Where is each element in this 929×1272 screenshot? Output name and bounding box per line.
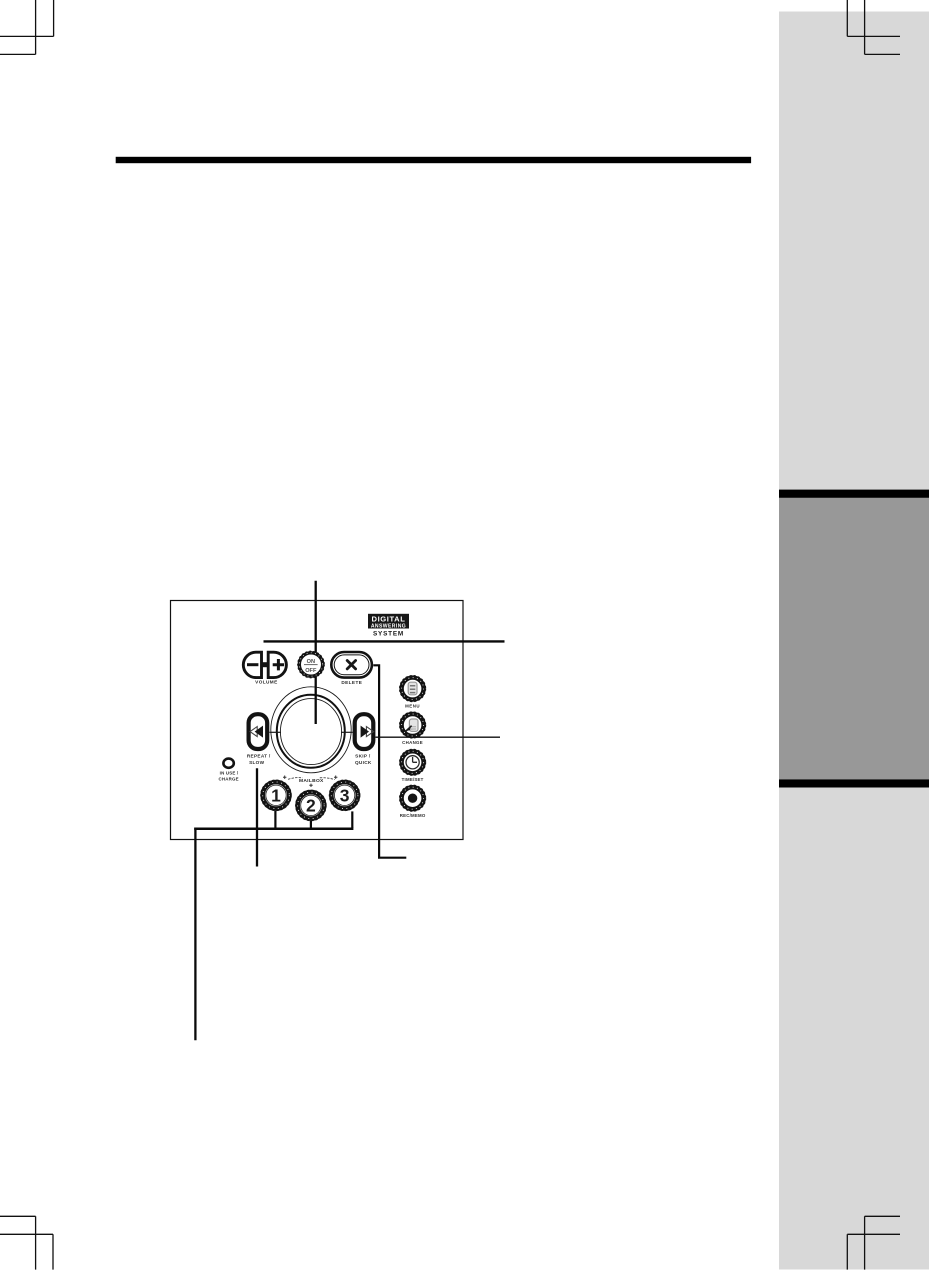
- mailbox button 1: [261, 780, 291, 810]
- section title rule: [116, 157, 751, 163]
- svg-text:SKIP /: SKIP /: [355, 754, 371, 759]
- svg-text:MENU: MENU: [405, 704, 420, 709]
- mailbox arc text: [283, 776, 337, 788]
- dial outer ring: [271, 687, 351, 773]
- svg-text:DIGITAL: DIGITAL: [371, 615, 405, 624]
- panel outline: [171, 601, 464, 840]
- left arrow button REPEAT/SLOW: [249, 714, 268, 749]
- mailbox tick 2: [310, 821, 312, 828]
- minus glyph: [247, 663, 258, 666]
- svg-text:CHANGE: CHANGE: [402, 740, 423, 745]
- crop mark bottom-right: [847, 1216, 900, 1269]
- svg-text:1: 1: [271, 786, 281, 806]
- svg-text:MAILBOX: MAILBOX: [299, 778, 324, 784]
- right arrow button SKIP/QUICK: [355, 714, 374, 749]
- svg-text:REC/MEMO: REC/MEMO: [400, 813, 426, 818]
- svg-text:ON: ON: [307, 659, 315, 665]
- callout line A (logo lead): [264, 640, 505, 642]
- mailbox button 3: [330, 780, 360, 810]
- svg-text:VOLUME: VOLUME: [255, 679, 277, 684]
- logo DIGITAL ANSWERING SYSTEM: [368, 614, 409, 638]
- callout line E (repeat lead): [256, 768, 258, 866]
- on/off button: [298, 651, 324, 677]
- crop mark top-left: [0, 0, 54, 54]
- callout line C (delete lead): [373, 665, 406, 857]
- sidebar tab top black bar: [779, 490, 929, 498]
- svg-text:ANSWERING: ANSWERING: [371, 624, 406, 630]
- callout line G (mailbox lead vertical): [194, 828, 196, 1041]
- delete button: [331, 652, 372, 685]
- time/set button: [400, 749, 426, 782]
- plus glyph: [273, 659, 284, 670]
- svg-text:SYSTEM: SYSTEM: [373, 630, 404, 637]
- svg-text:REPEAT /: REPEAT /: [247, 754, 271, 759]
- svg-text:DELETE: DELETE: [341, 680, 362, 685]
- mailbox button 2: [296, 790, 326, 820]
- svg-text:2: 2: [306, 796, 316, 816]
- sidebar tab dark gray: [779, 498, 929, 780]
- sidebar tab bottom black bar: [779, 779, 929, 787]
- svg-text:IN USE /: IN USE /: [220, 771, 239, 776]
- crop mark bottom-left: [0, 1216, 53, 1269]
- change button: [400, 712, 426, 745]
- mailbox tick 1: [274, 811, 276, 828]
- left connector: [270, 731, 282, 733]
- svg-text:3: 3: [340, 786, 350, 806]
- menu button: [400, 676, 426, 709]
- right connector: [341, 731, 353, 733]
- volume plus button: [268, 652, 286, 677]
- volume center bridge: [261, 662, 269, 667]
- callout line F (mailbox lead horizontal): [194, 828, 353, 831]
- svg-text:TIME/SET: TIME/SET: [402, 777, 424, 782]
- svg-text:CHARGE: CHARGE: [218, 777, 238, 782]
- in use / charge LED: [223, 759, 233, 768]
- callout line D (skip lead): [376, 736, 501, 738]
- sidebar light gray band: [779, 12, 929, 1270]
- volume minus button: [243, 652, 261, 677]
- dial knob inner: [280, 699, 341, 765]
- dial knob edge: [277, 695, 345, 768]
- crop mark top-right: [847, 0, 900, 54]
- svg-text:QUICK: QUICK: [355, 760, 372, 765]
- callout line B (dial lead from top): [315, 581, 317, 724]
- mailbox tick 3: [351, 811, 353, 828]
- svg-text:OFF: OFF: [305, 668, 317, 674]
- svg-text:SLOW: SLOW: [249, 760, 265, 765]
- rec/memo button: [400, 785, 426, 818]
